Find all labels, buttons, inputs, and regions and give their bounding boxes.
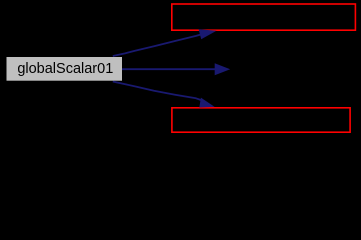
edge to bottom box bbox=[113, 82, 215, 108]
svg-text:globalScalar01: globalScalar01 bbox=[17, 61, 113, 77]
node globalScalar01 bbox=[7, 57, 123, 81]
red box top bbox=[172, 4, 356, 30]
red box bottom bbox=[172, 108, 350, 132]
edge to top box bbox=[113, 29, 217, 56]
edge to middle (hidden) node bbox=[122, 63, 230, 75]
